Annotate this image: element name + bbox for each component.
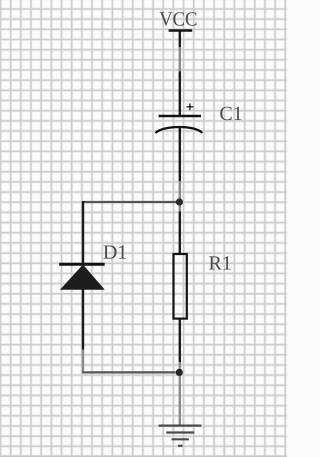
label D1 (103, 245, 126, 258)
wire node A to D1 corner (horizontal) (83, 201, 176, 203)
node B (junction) (176, 369, 183, 376)
wire D1 to node B (horizontal) (82, 371, 176, 373)
wire R1 to node B (179, 362, 181, 372)
wire VCC to C1 (179, 47, 181, 71)
capacitor C1 (155, 71, 202, 181)
diode D1 (59, 264, 104, 349)
wire D1 to node B (vertical) (82, 350, 84, 372)
wire corner down to D1 (82, 201, 84, 264)
power symbol VCC (169, 31, 193, 48)
node A (junction) (176, 198, 183, 205)
label R1 (209, 256, 231, 269)
label VCC (159, 12, 196, 26)
resistor R1 (174, 212, 187, 363)
label C1 (220, 107, 241, 120)
ground (159, 426, 202, 446)
wire node A to R1 (179, 202, 181, 212)
wire node B to ground (179, 372, 181, 425)
wire C1 to node A (179, 181, 181, 202)
